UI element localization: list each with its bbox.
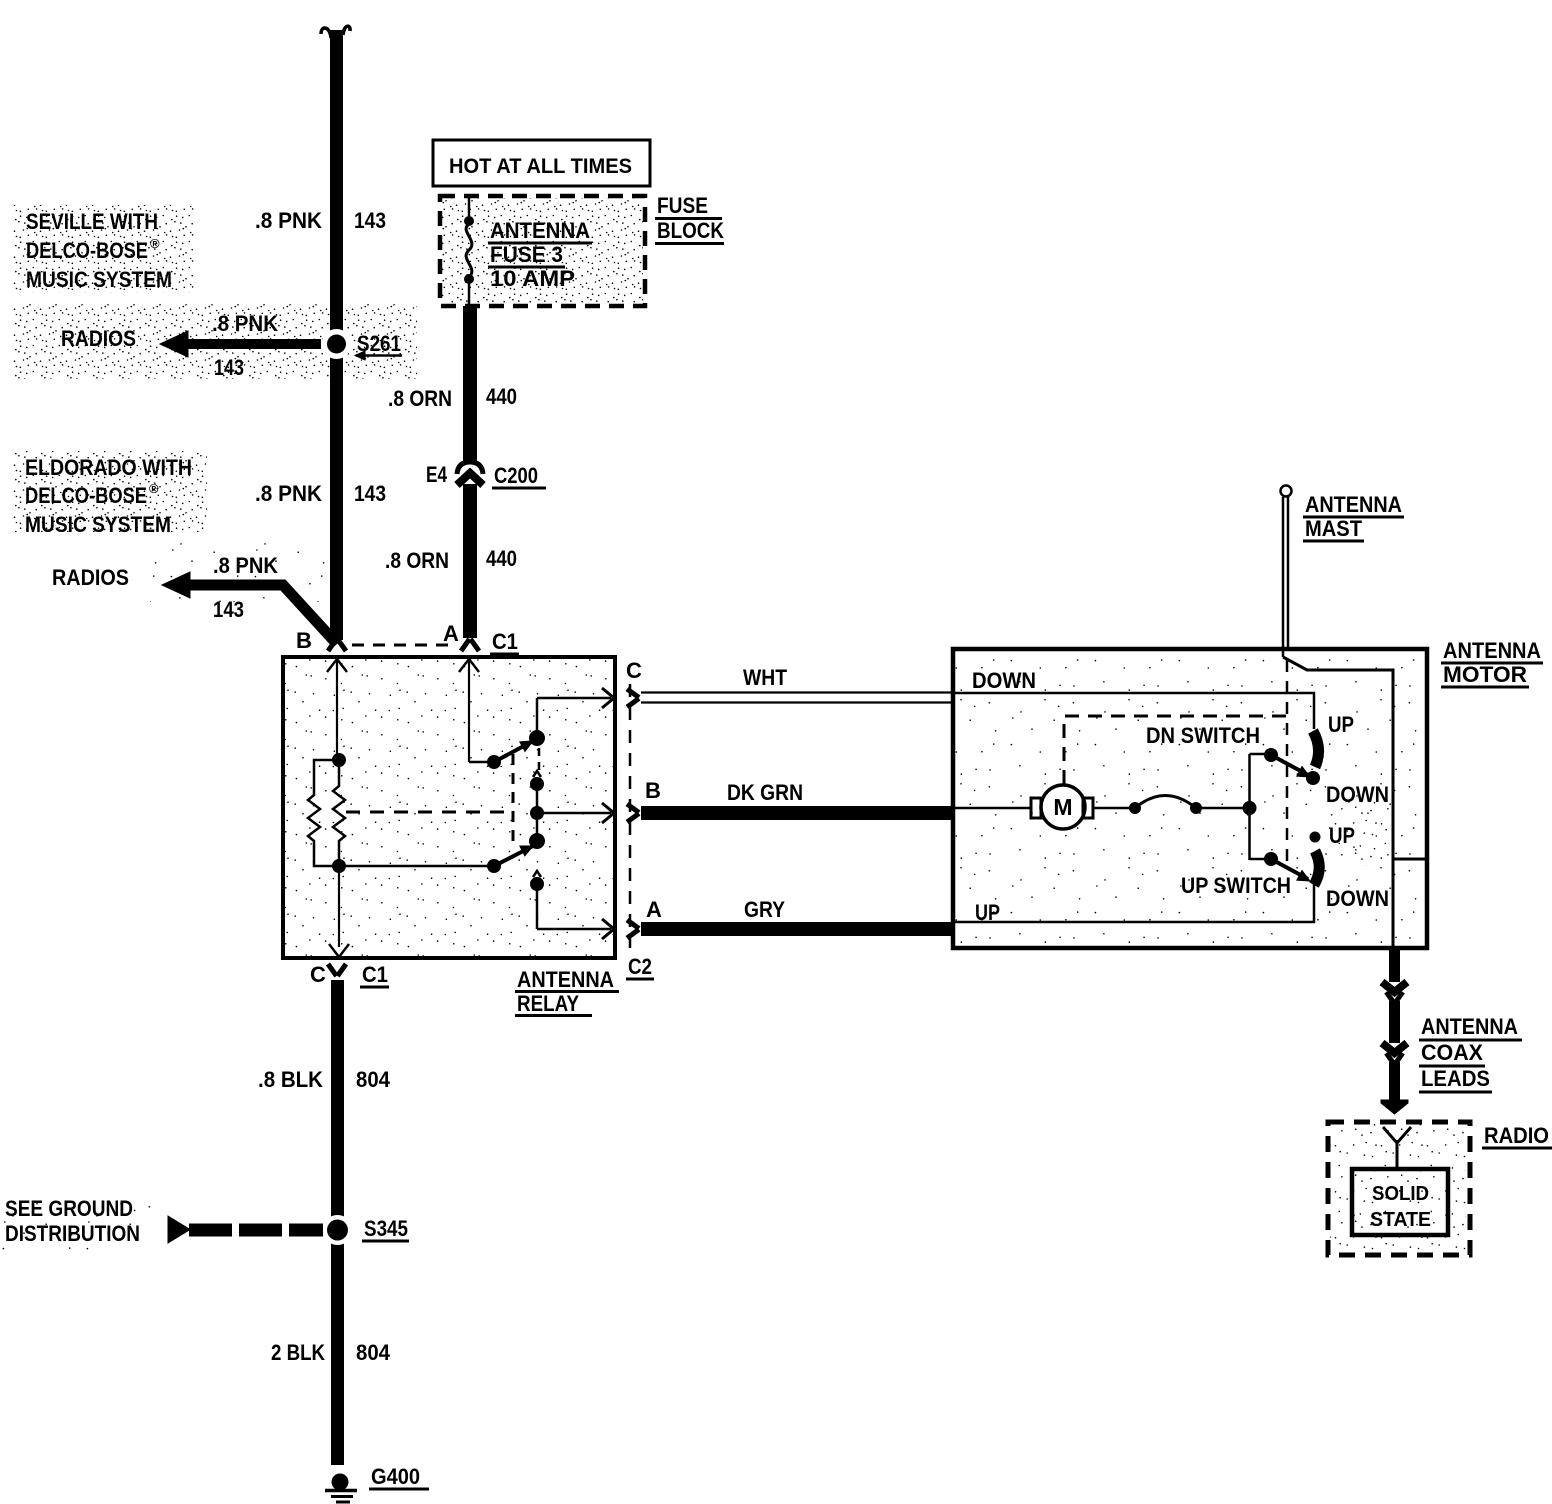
svg-text:UP SWITCH: UP SWITCH <box>1181 873 1291 898</box>
mast to coax path <box>1283 657 1393 948</box>
svg-text:UP: UP <box>1328 712 1354 737</box>
svg-text:804: 804 <box>356 1340 391 1365</box>
wire: BLK ground path <box>331 980 344 1465</box>
svg-text:S345: S345 <box>364 1216 408 1241</box>
connector C1 sockets (B and A) <box>328 639 346 651</box>
wire DK GRN (thick) <box>641 806 952 820</box>
svg-text:SOLID: SOLID <box>1372 1183 1429 1205</box>
svg-text:ANTENNA: ANTENNA <box>1305 492 1402 517</box>
ground G400 <box>332 1474 349 1491</box>
svg-text:2 BLK: 2 BLK <box>271 1340 325 1365</box>
svg-text:HOT AT ALL TIMES: HOT AT ALL TIMES <box>449 155 632 178</box>
svg-text:C: C <box>310 962 326 987</box>
svg-text:10 AMP: 10 AMP <box>490 266 575 291</box>
S261 underline-arrow <box>356 354 402 357</box>
svg-text:C200: C200 <box>494 463 538 488</box>
svg-text:UP: UP <box>1329 823 1355 848</box>
wire: .8 ORN 440 upper <box>463 306 477 462</box>
wire WHT (hollow) <box>641 691 952 693</box>
dashed wire to ground distribution <box>189 1224 323 1237</box>
fuse block dashed box <box>440 196 645 306</box>
switch common riser <box>1248 754 1251 860</box>
svg-text:RADIOS: RADIOS <box>61 326 136 351</box>
svg-text:A: A <box>443 621 459 646</box>
relay pin B (terminal arrow into box) <box>327 659 347 672</box>
svg-text:ELDORADO WITH: ELDORADO WITH <box>25 455 192 480</box>
svg-text:DOWN: DOWN <box>972 668 1036 693</box>
svg-text:DN SWITCH: DN SWITCH <box>1146 723 1260 748</box>
shading: antenna relay interior <box>285 659 613 956</box>
svg-text:MUSIC SYSTEM: MUSIC SYSTEM <box>25 512 171 537</box>
svg-text:WHT: WHT <box>743 665 787 690</box>
svg-text:FUSE: FUSE <box>657 193 708 218</box>
antenna coax leads <box>1389 948 1400 982</box>
svg-text:DELCO-BOSE: DELCO-BOSE <box>25 483 147 508</box>
wire GRY (thick) <box>641 922 952 936</box>
svg-text:.8 PNK: .8 PNK <box>255 208 322 233</box>
motor case line <box>1393 858 1427 861</box>
box: HOT AT ALL TIMES <box>433 140 650 186</box>
radio antenna symbol <box>1383 1127 1411 1143</box>
svg-text:DOWN: DOWN <box>1326 886 1389 911</box>
shading: see ground distribution area <box>2 1195 152 1255</box>
svg-text:®: ® <box>150 236 160 251</box>
relay pin A <box>459 659 479 672</box>
connector C200 pin E4 <box>457 462 483 474</box>
antenna mast <box>1281 486 1292 497</box>
wire: .8 PNK 143 feed from radios <box>330 30 343 640</box>
svg-text:SEE GROUND: SEE GROUND <box>5 1196 133 1221</box>
svg-text:MAST: MAST <box>1305 516 1363 541</box>
motor M <box>1041 785 1085 829</box>
mast mechanical dashed link <box>1286 660 1289 865</box>
svg-text:.8 ORN: .8 ORN <box>385 548 449 573</box>
svg-text:G400: G400 <box>371 1464 420 1489</box>
relay contact to C2-C (WHT) <box>537 697 611 700</box>
wire break curl at top <box>321 28 331 38</box>
radio dashed box <box>1328 1122 1470 1255</box>
svg-text:440: 440 <box>486 546 517 571</box>
svg-text:STATE: STATE <box>1370 1209 1431 1231</box>
relay ground leg to pin C <box>338 866 340 947</box>
antenna motor box <box>953 649 1427 948</box>
relay lower contact arm (to ground side) <box>339 865 492 868</box>
DN switch dashed box <box>1064 716 1287 784</box>
svg-text:®: ® <box>149 481 159 496</box>
svg-text:ANTENNA: ANTENNA <box>490 218 590 243</box>
arrow to RADIOS (Seville) <box>188 339 321 349</box>
shading: Seville note block <box>13 205 195 293</box>
arrow to RADIOS (Eldorado) with diagonal from node B <box>190 585 337 644</box>
DK GRN entry to motor <box>953 807 1031 810</box>
svg-text:LEADS: LEADS <box>1421 1066 1490 1091</box>
svg-text:COAX: COAX <box>1421 1040 1483 1065</box>
svg-text:SEVILLE WITH: SEVILLE WITH <box>26 209 158 234</box>
svg-text:RELAY: RELAY <box>517 991 579 1016</box>
splice S345 <box>323 1215 353 1245</box>
shading: fuse block interior <box>442 198 643 304</box>
fuse element: ANTENNA FUSE 3 10 AMP <box>468 196 471 218</box>
svg-text:E4: E4 <box>426 462 448 487</box>
svg-text:143: 143 <box>213 597 244 622</box>
relay contact to C2-A (GRY) <box>537 928 611 931</box>
svg-text:M: M <box>1053 794 1072 820</box>
svg-text:ANTENNA: ANTENNA <box>517 967 614 992</box>
C2 socket B <box>627 804 639 822</box>
svg-text:DK GRN: DK GRN <box>727 780 803 805</box>
svg-text:ANTENNA: ANTENNA <box>1421 1014 1518 1039</box>
circuit breaker <box>1093 807 1135 810</box>
svg-text:BLOCK: BLOCK <box>657 218 724 243</box>
svg-text:C: C <box>626 658 642 683</box>
svg-text:ANTENNA: ANTENNA <box>1443 638 1541 663</box>
svg-text:.8 ORN: .8 ORN <box>388 386 452 411</box>
shading: eldorado arrow area <box>150 540 335 602</box>
connector C2 dashed line <box>629 684 632 948</box>
svg-text:C2: C2 <box>628 954 652 979</box>
svg-text:.8 BLK: .8 BLK <box>258 1067 323 1092</box>
relay coil & parallel resistor <box>332 753 346 767</box>
svg-text:143: 143 <box>354 481 386 506</box>
DN switch <box>1250 753 1267 756</box>
svg-text:.8 PNK: .8 PNK <box>255 481 322 506</box>
svg-text:DOWN: DOWN <box>1326 782 1389 807</box>
svg-text:440: 440 <box>486 384 517 409</box>
svg-text:DISTRIBUTION: DISTRIBUTION <box>5 1221 140 1246</box>
svg-text:RADIOS: RADIOS <box>52 565 129 590</box>
svg-text:143: 143 <box>214 355 244 380</box>
svg-text:GRY: GRY <box>744 897 785 922</box>
UP wire inside motor <box>953 884 1314 922</box>
svg-text:RADIO: RADIO <box>1484 1123 1549 1148</box>
shading: radio box interior <box>1330 1124 1466 1253</box>
relay coil mech dashes <box>346 811 513 814</box>
svg-text:B: B <box>296 628 312 653</box>
C2 socket C <box>627 689 639 707</box>
splice S261 <box>322 329 352 359</box>
svg-text:B: B <box>645 778 661 803</box>
svg-text:FUSE 3: FUSE 3 <box>490 242 563 267</box>
C2 socket A <box>627 920 639 938</box>
svg-text:DELCO-BOSE: DELCO-BOSE <box>26 238 148 263</box>
shading: S261 radios band <box>13 303 417 379</box>
svg-text:A: A <box>646 897 662 922</box>
connector C1 socket at relay bottom (pin C) <box>328 964 346 976</box>
shading: antenna motor interior <box>955 651 1425 946</box>
svg-text:MUSIC SYSTEM: MUSIC SYSTEM <box>26 267 172 292</box>
svg-text:.8 PNK: .8 PNK <box>212 311 278 336</box>
relay centre contacts / B node <box>533 771 541 777</box>
antenna relay box <box>283 657 615 958</box>
wire: .8 ORN 440 lower <box>463 484 477 638</box>
svg-text:UP: UP <box>975 900 1000 925</box>
solid state receiver <box>1352 1169 1448 1235</box>
svg-text:MOTOR: MOTOR <box>1443 662 1527 687</box>
svg-text:.8 PNK: .8 PNK <box>213 553 278 578</box>
UP switch <box>1250 858 1267 861</box>
shading: Eldorado note block <box>13 451 207 532</box>
svg-text:C1: C1 <box>492 629 518 654</box>
svg-text:C1: C1 <box>362 962 388 987</box>
svg-text:804: 804 <box>356 1067 391 1092</box>
relay upper contact arm (from pin A) <box>469 761 492 764</box>
svg-text:143: 143 <box>354 208 386 233</box>
